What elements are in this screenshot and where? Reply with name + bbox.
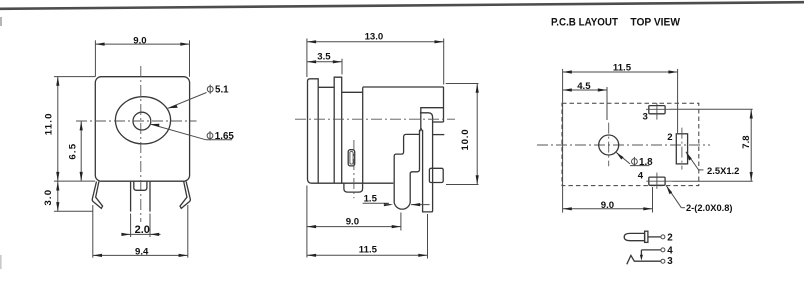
leader label 2-(2.0X0.8): [666, 186, 732, 215]
svg-text:9.0: 9.0: [346, 216, 359, 227]
side view shelf between flanges: [318, 86, 334, 88]
side view bent middle pin (pin 4): [394, 130, 419, 209]
side view horizontal centerline: [295, 118, 455, 120]
svg-text:3.5: 3.5: [317, 51, 331, 62]
schematic plug flange bar: [645, 231, 648, 242]
side view sheet fold point: [420, 129, 423, 132]
svg-text:3.0: 3.0: [43, 189, 54, 206]
svg-text:4.5: 4.5: [577, 81, 591, 92]
svg-text:9.0: 9.0: [133, 36, 146, 47]
pad 4 extension line to 7.8 dimension: [673, 180, 753, 182]
schematic plug barrel: [624, 233, 644, 240]
side view main body left edge: [362, 87, 364, 183]
schematic pin 2 wire: [648, 236, 661, 238]
dimension 11.5 bottom of side view: [307, 214, 428, 259]
dimension 13.0 top of side view: [307, 32, 444, 85]
left mounting leg: [92, 182, 102, 209]
svg-text:4: 4: [667, 246, 673, 257]
svg-text:2.5X1.2: 2.5X1.2: [707, 166, 739, 177]
dimension 3.0 left of front view: [43, 181, 59, 211]
svg-text:3: 3: [643, 112, 648, 123]
schematic pin 3 wire with switch lever: [627, 255, 661, 264]
front center terminal pin sides: [130, 182, 132, 212]
side view flange strip 2: [334, 77, 342, 183]
leader label diameter 1.8: [616, 152, 653, 167]
side view shelf 2: [342, 91, 363, 93]
front center pin hole inner circle: [133, 112, 151, 130]
pcb dashed outline: [562, 103, 699, 185]
scanner speck top left edge: [0, 17, 2, 26]
side view rear side tab (pin contact): [429, 168, 443, 182]
dimension 7.8 right of pcb: [741, 109, 753, 181]
pad 2 slot: [676, 128, 687, 170]
svg-text:13.0: 13.0: [365, 32, 384, 43]
side view flange strip 1: [308, 79, 394, 183]
leader label diameter 5.1: [168, 84, 229, 108]
top border line of drawing sheet: [0, 2, 804, 9]
dimension 3.5 of side view: [307, 51, 342, 74]
dimension 11.0 left of front view: [44, 77, 95, 212]
front view horizontal centerline: [76, 120, 197, 122]
side view main body right edge: [443, 87, 445, 122]
svg-text:11.5: 11.5: [359, 244, 378, 255]
svg-text:9.4: 9.4: [135, 246, 149, 257]
pcb horizontal centerline: [537, 144, 710, 146]
schematic pin 4 wire: [641, 249, 661, 251]
side view back pin (pin 3): [420, 113, 433, 212]
svg-text:9.0: 9.0: [601, 200, 614, 211]
svg-text:1.8: 1.8: [639, 157, 653, 168]
svg-text:7.8: 7.8: [741, 135, 752, 149]
svg-text:11.5: 11.5: [613, 62, 632, 73]
side view rear ledge lines: [433, 121, 444, 123]
schematic pin 3 terminal circle: [661, 259, 665, 263]
svg-text:4: 4: [638, 170, 644, 181]
pad 3 slot: [646, 103, 669, 119]
front view vertical centerline: [140, 66, 142, 222]
svg-text:P.C.B LAYOUT: P.C.B LAYOUT: [551, 17, 618, 29]
schematic pin 2 terminal circle: [661, 235, 665, 239]
leader label diameter 1.65: [150, 124, 234, 142]
side view main body top edge: [363, 86, 444, 88]
front center terminal pin inner collar: [134, 182, 147, 191]
dimension 10.0 right of side view: [446, 84, 479, 185]
pcb hole vertical centerline: [608, 123, 610, 167]
svg-text:5.1: 5.1: [215, 84, 229, 95]
svg-text:2-(2.0X0.8): 2-(2.0X0.8): [686, 203, 733, 214]
svg-text:2: 2: [667, 132, 672, 143]
dimension 2.0 center pin width: [121, 214, 160, 238]
svg-text:1.65: 1.65: [215, 131, 235, 142]
svg-text:2: 2: [667, 233, 673, 244]
scanner speck bottom left edge: [0, 255, 2, 269]
leader label 2.5X1.2: [686, 152, 740, 177]
dimension 4.5 of pcb: [563, 81, 607, 120]
svg-text:TOP VIEW: TOP VIEW: [630, 17, 680, 29]
dimension 9.0 bottom of pcb: [563, 187, 653, 213]
dimension 9.0 top of front view: [95, 36, 189, 77]
front barrel outer circle: [115, 97, 170, 144]
svg-text:11.0: 11.0: [44, 112, 55, 135]
svg-text:2.0: 2.0: [135, 224, 150, 236]
svg-text:10.0: 10.0: [460, 129, 471, 151]
side view front pin tab below body: [344, 183, 363, 192]
dimension 6.5 left of front view: [54, 121, 95, 181]
side view pin tab vertical centerline: [353, 140, 355, 198]
side view rear cavity notch line and thin wall upper edge: [421, 108, 444, 129]
svg-text:1.5: 1.5: [364, 194, 378, 205]
dimension 9.0 bottom of side view: [307, 186, 401, 258]
pcb hole circle: [599, 135, 619, 155]
svg-text:3: 3: [667, 256, 673, 267]
right mounting leg: [180, 182, 190, 209]
pad 3 extension line to 7.8 dimension: [669, 108, 753, 110]
front view body outline: [95, 77, 189, 182]
pad 4 slot: [646, 173, 672, 189]
dimension 11.5 top of pcb: [563, 62, 678, 212]
schematic pin 4 terminal circle: [661, 248, 665, 252]
svg-text:6.5: 6.5: [68, 143, 79, 160]
dimension 9.4 bottom of front view: [93, 205, 188, 258]
dimension 1.5 pin width side view: [363, 194, 430, 207]
schematic pin 4 drop wire with arrow: [640, 250, 643, 261]
side view body hole detail: [348, 150, 355, 166]
